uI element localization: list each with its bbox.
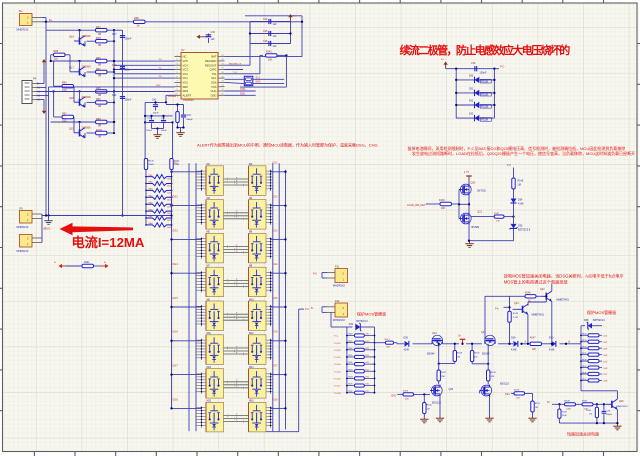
svg-text:6: 6 bbox=[176, 76, 177, 78]
svg-text:100nF: 100nF bbox=[480, 72, 487, 75]
wire right pin fan row4 bbox=[266, 271, 273, 292]
svg-text:0R: 0R bbox=[98, 64, 101, 67]
optocoupler M5 bbox=[206, 232, 224, 263]
svg-text:18: 18 bbox=[222, 63, 224, 65]
zener D35 (BZT52C5.6) bbox=[510, 224, 531, 241]
svg-text:4148: 4148 bbox=[404, 349, 410, 352]
svg-text:P-CG2: P-CG2 bbox=[334, 350, 341, 352]
resistor R147b (10K) bbox=[471, 213, 515, 223]
svg-text:10K: 10K bbox=[268, 58, 273, 61]
node CG7 label bbox=[272, 365, 278, 368]
svg-text:P-CG5: P-CG5 bbox=[334, 371, 341, 373]
node CG2 label bbox=[272, 196, 278, 199]
wire DG4 branch bbox=[170, 272, 201, 274]
svg-text:M13: M13 bbox=[207, 367, 212, 369]
svg-text:1.7V: 1.7V bbox=[464, 170, 470, 174]
svg-text:P-C: P-C bbox=[507, 164, 511, 167]
svg-text:9: 9 bbox=[176, 89, 177, 91]
svg-text:VSS: VSS bbox=[211, 85, 217, 89]
resistor R96 bbox=[87, 98, 116, 108]
wire CG5 branch bbox=[271, 306, 287, 308]
svg-text:DG7: DG7 bbox=[173, 365, 179, 368]
svg-text:47Ω: 47Ω bbox=[365, 377, 369, 379]
svg-text:51Ω: 51Ω bbox=[54, 57, 59, 60]
resistor R131 (1M) bbox=[528, 393, 540, 421]
svg-text:680pF: 680pF bbox=[606, 414, 612, 416]
svg-text:BSS84: BSS84 bbox=[427, 353, 435, 356]
svg-text:P-C: P-C bbox=[305, 308, 310, 311]
svg-text:REGOUT: REGOUT bbox=[205, 63, 217, 67]
wire opto rail A bbox=[188, 163, 190, 431]
svg-text:DSG: DSG bbox=[211, 93, 217, 97]
svg-text:VC1: VC1 bbox=[183, 76, 189, 80]
svg-text:VC4: VC4 bbox=[183, 63, 189, 67]
diode D31 (RS1M) bbox=[455, 88, 495, 96]
svg-text:Q28: Q28 bbox=[619, 401, 624, 403]
transistor Q18 (2N3906) bbox=[69, 91, 91, 107]
resistor R48 bbox=[87, 37, 116, 47]
svg-text:R135: R135 bbox=[582, 353, 587, 355]
svg-text:CG3': CG3' bbox=[603, 348, 608, 350]
svg-text:M16: M16 bbox=[249, 401, 254, 403]
svg-text:MHDR1X2: MHDR1X2 bbox=[333, 319, 346, 322]
wire freewheel buses bbox=[456, 69, 494, 118]
svg-text:CG8: CG8 bbox=[272, 398, 278, 401]
wire P12 to ladder bbox=[331, 312, 347, 327]
svg-text:M14: M14 bbox=[249, 367, 254, 369]
svg-text:8: 8 bbox=[176, 85, 177, 87]
svg-text:680pF: 680pF bbox=[187, 119, 194, 121]
svg-text:TS1: TS1 bbox=[212, 72, 217, 76]
svg-text:D33: D33 bbox=[349, 324, 354, 326]
svg-text:R117: R117 bbox=[385, 339, 391, 341]
svg-text:R138: R138 bbox=[582, 372, 587, 374]
red arrow annotation bbox=[60, 223, 134, 235]
capacitor C45 (100nF) bbox=[161, 116, 168, 132]
svg-text:100Ω: 100Ω bbox=[174, 164, 180, 166]
wire DG3 branch bbox=[170, 238, 201, 240]
svg-text:保护MOS管栅极: 保护MOS管栅极 bbox=[357, 311, 386, 317]
wire right pin fan row3 bbox=[266, 237, 273, 258]
svg-text:Q16: Q16 bbox=[69, 35, 74, 39]
svg-text:R99: R99 bbox=[96, 118, 101, 121]
node DG8 label bbox=[173, 398, 179, 401]
capacitor C43 (680pF) bbox=[181, 105, 193, 128]
svg-text:19: 19 bbox=[222, 59, 224, 61]
svg-text:R124: R124 bbox=[348, 377, 352, 379]
svg-text:Q26: Q26 bbox=[449, 388, 454, 391]
svg-text:CG6': CG6' bbox=[603, 368, 608, 370]
svg-text:D30: D30 bbox=[469, 75, 474, 77]
ground R142/C43 bbox=[176, 131, 184, 137]
optocoupler M15 bbox=[206, 401, 224, 432]
ground caps bbox=[153, 133, 161, 139]
ground Q28 bbox=[613, 424, 621, 430]
transistor Q17 (2N3906) bbox=[69, 61, 91, 77]
svg-text:续流二极管，防止电感效应大电压烧坏的: 续流二极管，防止电感效应大电压烧坏的 bbox=[400, 43, 571, 57]
svg-text:100Ω: 100Ω bbox=[149, 164, 155, 166]
wire left pin fan row2 bbox=[196, 204, 206, 225]
svg-text:M10: M10 bbox=[249, 299, 254, 301]
resistor R97 (51R) bbox=[52, 90, 74, 133]
svg-text:D34: D34 bbox=[518, 199, 523, 202]
svg-text:U7: U7 bbox=[181, 48, 185, 52]
resistor R66 bbox=[134, 16, 146, 27]
svg-text:SRP: SRP bbox=[183, 85, 189, 89]
svg-text:R100: R100 bbox=[96, 129, 103, 132]
svg-text:R133: R133 bbox=[582, 340, 587, 342]
resistors CG ladder R118-R126 bbox=[334, 327, 375, 395]
optocoupler M4 bbox=[249, 198, 267, 229]
wire right pin fan row7 bbox=[266, 373, 273, 394]
node DG7 label bbox=[173, 365, 179, 368]
power arrow above P4 (B+) bbox=[37, 59, 47, 84]
svg-text:20K: 20K bbox=[441, 376, 445, 378]
transistor Q28 (MMBT5551) bbox=[606, 399, 628, 423]
resistor R90 bbox=[96, 57, 108, 67]
wire stage rail Q18 bbox=[51, 90, 115, 92]
wire DG1 branch bbox=[170, 171, 201, 173]
wire TS1 pin bbox=[225, 55, 264, 73]
svg-text:P-CG8: P-CG8 bbox=[334, 393, 341, 395]
wire P4 pin A1 long (SRN) bbox=[37, 91, 175, 93]
ground Q26 bbox=[436, 416, 444, 422]
resistor R99 bbox=[96, 118, 108, 128]
resistor R147 (20K) bbox=[530, 338, 542, 351]
svg-text:D33: D33 bbox=[469, 114, 474, 116]
svg-text:MHDR1X2: MHDR1X2 bbox=[17, 250, 30, 253]
component J1 isolator on SCL/SDA bbox=[225, 76, 285, 85]
svg-text:R47: R47 bbox=[96, 26, 101, 29]
svg-text:RS1M: RS1M bbox=[481, 119, 488, 122]
wire Q28 bottom rail bbox=[559, 422, 618, 424]
wire cluster mid rail bbox=[145, 121, 174, 123]
transistor Q24 (BSS84) bbox=[427, 332, 445, 355]
svg-text:R139: R139 bbox=[582, 379, 587, 381]
svg-text:M15: M15 bbox=[207, 401, 212, 403]
svg-text:VC5: VC5 bbox=[183, 59, 189, 63]
capacitor C37 (100nF) bbox=[112, 33, 132, 41]
node DG6 label bbox=[173, 331, 179, 334]
svg-text:C25: C25 bbox=[263, 30, 268, 33]
svg-text:7: 7 bbox=[176, 81, 177, 83]
wire bundle to U7 bbox=[113, 59, 175, 87]
svg-text:100n: 100n bbox=[125, 69, 131, 72]
svg-text:D35: D35 bbox=[518, 225, 523, 228]
svg-text:47Ω: 47Ω bbox=[365, 341, 369, 343]
svg-text:R136: R136 bbox=[582, 359, 587, 361]
power arrow below P4 bbox=[37, 100, 47, 115]
svg-text:CG1: CG1 bbox=[272, 162, 278, 165]
svg-text:BZT52C5.6: BZT52C5.6 bbox=[518, 229, 531, 232]
svg-text:1M: 1M bbox=[427, 409, 430, 411]
ground Q27 bbox=[485, 416, 493, 422]
svg-text:NC: NC bbox=[183, 55, 187, 59]
svg-text:R97: R97 bbox=[62, 112, 67, 115]
svg-text:REGSRC: REGSRC bbox=[205, 59, 217, 63]
wire left pin fan row4 bbox=[196, 271, 206, 292]
optocoupler M7 bbox=[206, 266, 224, 297]
capacitor C40b (100nF) bbox=[146, 116, 154, 132]
svg-text:R118: R118 bbox=[348, 334, 352, 336]
svg-text:2N3906: 2N3906 bbox=[82, 95, 92, 99]
svg-text:MMBT5401: MMBT5401 bbox=[532, 314, 545, 317]
capacitor C48 (680pF) bbox=[602, 404, 613, 423]
svg-text:20K: 20K bbox=[491, 376, 495, 378]
transistor Q27 (BSS123) bbox=[480, 383, 510, 417]
svg-text:20: 20 bbox=[222, 55, 224, 57]
svg-text:R132: R132 bbox=[582, 334, 587, 336]
wire CG6 branch bbox=[271, 340, 287, 342]
svg-text:VC3: VC3 bbox=[183, 68, 189, 72]
transistor Q20 (2N7002) bbox=[459, 182, 486, 196]
ground Q20/Q21 bbox=[465, 242, 473, 248]
capacitor C41 (100nF) bbox=[112, 94, 132, 102]
svg-text:电流I=12MA: 电流I=12MA bbox=[72, 234, 145, 250]
resistor R136b (100K) bbox=[565, 401, 576, 411]
svg-text:R95: R95 bbox=[96, 87, 101, 90]
svg-text:BZT52C13: BZT52C13 bbox=[357, 321, 369, 323]
svg-text:R147: R147 bbox=[494, 213, 500, 215]
svg-text:R123: R123 bbox=[348, 369, 352, 371]
svg-text:15: 15 bbox=[222, 76, 224, 78]
transistor Q19 (2N3906) bbox=[69, 122, 91, 138]
svg-text:100nF: 100nF bbox=[125, 99, 133, 102]
svg-text:R148: R148 bbox=[525, 292, 531, 294]
wire opto links row2 bbox=[224, 211, 249, 220]
svg-text:11: 11 bbox=[222, 94, 224, 96]
resistor R138 (20K) bbox=[487, 344, 497, 385]
node CG8 label bbox=[272, 398, 278, 401]
wire left pin fan row8 bbox=[196, 406, 206, 427]
svg-text:MHDR1X2: MHDR1X2 bbox=[333, 285, 346, 288]
resistor R136 (20K) bbox=[407, 199, 459, 210]
svg-text:B+: B+ bbox=[19, 9, 23, 13]
svg-text:BSS123: BSS123 bbox=[500, 383, 509, 386]
svg-text:1uF: 1uF bbox=[211, 38, 216, 41]
resistors RA1-RA8 ladder bbox=[145, 174, 172, 229]
svg-text:0R: 0R bbox=[98, 33, 101, 36]
svg-text:1uF: 1uF bbox=[273, 35, 278, 38]
capacitor C36 (1uF) bbox=[197, 31, 216, 43]
resistor R101 with ports bbox=[54, 262, 109, 268]
node DG2 label bbox=[173, 196, 179, 199]
svg-text:DG2: DG2 bbox=[173, 196, 179, 199]
svg-text:*C-K: *C-K bbox=[233, 72, 238, 74]
wire opto links row3 bbox=[224, 245, 249, 254]
resistor R145 (1M) bbox=[507, 164, 524, 199]
svg-text:VC2: VC2 bbox=[183, 72, 189, 76]
wire CG4 branch bbox=[271, 272, 287, 274]
svg-text:R126: R126 bbox=[403, 391, 409, 393]
svg-text:C42: C42 bbox=[152, 99, 157, 101]
node Ds label bbox=[547, 402, 551, 404]
wire opto left feed bus bbox=[171, 169, 173, 408]
svg-text:P-CG4: P-CG4 bbox=[334, 364, 341, 366]
wire opto right rail C bbox=[272, 163, 274, 431]
svg-text:D39: D39 bbox=[511, 337, 516, 340]
svg-text:R137: R137 bbox=[582, 366, 587, 368]
resistor R148 (1K) bbox=[510, 292, 541, 302]
svg-text:R144: R144 bbox=[174, 161, 180, 163]
optocoupler M16 bbox=[249, 401, 267, 432]
svg-text:1: 1 bbox=[176, 55, 177, 57]
svg-text:0R: 0R bbox=[98, 105, 101, 108]
wire VBUS rail bbox=[42, 214, 173, 243]
svg-text:20K: 20K bbox=[386, 347, 390, 349]
wire opto links row1 bbox=[224, 177, 249, 186]
svg-text:R96: R96 bbox=[96, 98, 101, 101]
resistor R144 (100R) vertical bbox=[170, 159, 180, 177]
wire stage rail Q17 bbox=[51, 60, 115, 62]
svg-text:R126: R126 bbox=[348, 391, 352, 393]
svg-text:P-CG3: P-CG3 bbox=[334, 357, 341, 359]
svg-text:CG7': CG7' bbox=[603, 374, 608, 376]
svg-text:17: 17 bbox=[222, 68, 224, 70]
svg-text:BZT52C13: BZT52C13 bbox=[593, 319, 605, 322]
wire left pin fan row7 bbox=[196, 373, 206, 394]
wire cluster bus right bbox=[172, 122, 174, 158]
svg-text:P-CG7: P-CG7 bbox=[334, 386, 341, 388]
svg-text:14: 14 bbox=[222, 81, 224, 83]
svg-text:CAP1: CAP1 bbox=[209, 68, 217, 72]
svg-text:ALERT: ALERT bbox=[183, 93, 192, 97]
svg-text:MHDR1X2: MHDR1X2 bbox=[17, 226, 30, 229]
wire cap rail bbox=[114, 30, 124, 216]
wire opto links row5 bbox=[224, 313, 249, 322]
svg-text:51Ω: 51Ω bbox=[62, 120, 67, 123]
wire Q21 ground rail bbox=[468, 240, 514, 242]
svg-text:47Ω: 47Ω bbox=[365, 348, 369, 350]
svg-text:R94: R94 bbox=[62, 82, 67, 85]
resistor R100 bbox=[87, 129, 116, 139]
diode D34 (4148) bbox=[511, 199, 524, 224]
node CG1 label bbox=[272, 162, 278, 165]
svg-text:CG2: CG2 bbox=[272, 196, 278, 199]
ground VBUS- bbox=[43, 216, 53, 231]
svg-text:1M: 1M bbox=[457, 357, 460, 359]
svg-text:R149: R149 bbox=[513, 313, 519, 315]
svg-text:SDA: SDA bbox=[211, 81, 217, 85]
resistor R141 (10K) bbox=[240, 51, 288, 88]
svg-text:3: 3 bbox=[176, 63, 177, 65]
svg-text:Q24: Q24 bbox=[432, 332, 437, 335]
svg-text:CG6: CG6 bbox=[272, 331, 278, 334]
svg-text:C39: C39 bbox=[471, 62, 476, 65]
svg-text:0R: 0R bbox=[98, 75, 101, 78]
connector P12 (MHDR1X2) bbox=[311, 300, 348, 322]
svg-text:100K: 100K bbox=[566, 409, 572, 411]
svg-text:BAT: BAT bbox=[211, 55, 216, 59]
capacitors C24 C25 C26 bbox=[249, 18, 292, 48]
red note 保护MOS管用 bbox=[587, 309, 616, 315]
svg-text:B-: B- bbox=[54, 262, 56, 264]
resistor R119 (1M) bbox=[438, 343, 463, 365]
power arrow B+ freewheel bbox=[441, 59, 448, 69]
diode D33 (RS1M) bbox=[456, 114, 494, 122]
red note mid-right line1 bbox=[408, 145, 626, 151]
svg-text:M12: M12 bbox=[249, 333, 254, 335]
svg-text:R147: R147 bbox=[530, 338, 536, 340]
svg-text:20K: 20K bbox=[516, 398, 520, 400]
svg-text:2.2M: 2.2M bbox=[513, 317, 518, 319]
svg-text:100nF: 100nF bbox=[146, 130, 153, 132]
optocoupler M1 bbox=[206, 164, 224, 195]
svg-text:100K: 100K bbox=[562, 415, 567, 417]
wire Q20/Q21 stack bbox=[468, 181, 470, 241]
power arrow REG rail bbox=[288, 14, 296, 20]
node CG4 label bbox=[272, 263, 278, 266]
svg-text:SRN: SRN bbox=[183, 89, 189, 93]
svg-text:2N7002: 2N7002 bbox=[477, 189, 486, 192]
svg-text:P12: P12 bbox=[335, 300, 340, 303]
wire left pin fan row1 bbox=[196, 170, 206, 191]
svg-text:C41: C41 bbox=[112, 94, 117, 97]
wire cluster bus left bbox=[144, 102, 146, 158]
svg-text:C26: C26 bbox=[263, 40, 268, 43]
resistor R140b (1M) bbox=[586, 404, 598, 423]
svg-text:CHG: CHG bbox=[211, 89, 217, 93]
capacitor C40 (100n) bbox=[112, 64, 131, 72]
svg-text:B+: B+ bbox=[49, 18, 53, 22]
transistor Q22 (MMBT5401) bbox=[540, 284, 570, 345]
svg-text:P-C-: P-C- bbox=[500, 66, 505, 69]
svg-text:BSS84: BSS84 bbox=[472, 226, 480, 229]
svg-text:P-CG6: P-CG6 bbox=[334, 379, 341, 381]
diode D30b (4148) bbox=[404, 337, 410, 352]
wire right pin fan row5 bbox=[266, 305, 273, 326]
svg-text:C36: C36 bbox=[211, 31, 216, 34]
svg-text:短路加速关闭电路: 短路加速关闭电路 bbox=[567, 431, 599, 437]
optocoupler M13 bbox=[206, 367, 224, 398]
wire BAT pin bbox=[225, 57, 303, 66]
connector P10 (MHDR1X2) bbox=[17, 235, 43, 253]
svg-text:发生放电过流短路断时，LOAD在拉低后，Q20Q21栅极产生: 发生放电过流短路断时，LOAD在拉低后，Q20Q21栅极产生一个电压，使信号变高… bbox=[412, 150, 635, 156]
node DG4 label bbox=[173, 263, 179, 266]
node CG3 label bbox=[272, 229, 278, 232]
diode D40 (4148) bbox=[549, 337, 571, 352]
svg-text:DSG: DSG bbox=[505, 394, 510, 396]
svg-text:CG3: CG3 bbox=[272, 229, 278, 232]
wire right pin fan row6 bbox=[266, 339, 273, 360]
svg-text:ALERT作为报警输出到MCU的中断，通知MCU读数据，作为: ALERT作为报警输出到MCU的中断，通知MCU读数据，作为输入时管脚为保护，温… bbox=[197, 141, 378, 147]
wire stage rail Q16 bbox=[46, 29, 115, 31]
svg-text:R145: R145 bbox=[518, 180, 524, 183]
svg-text:R88: R88 bbox=[54, 50, 59, 53]
wire right pin fan row1 bbox=[266, 170, 273, 191]
wire vertical B+ left bus bbox=[45, 22, 47, 216]
node DG3 label bbox=[173, 229, 179, 232]
svg-text:D31: D31 bbox=[469, 88, 474, 90]
svg-text:12: 12 bbox=[222, 89, 224, 91]
optocoupler M12 bbox=[249, 333, 267, 364]
svg-text:5: 5 bbox=[176, 72, 177, 74]
wire R142/C43 bottom bbox=[176, 126, 184, 130]
svg-text:Q20: Q20 bbox=[471, 182, 476, 185]
resistor R130 (1M) bbox=[420, 394, 432, 422]
svg-text:bq76920: bq76920 bbox=[184, 98, 195, 102]
diode D30 (RS1M) bbox=[455, 75, 495, 83]
svg-text:R119: R119 bbox=[457, 353, 463, 355]
svg-text:P-C-: P-C- bbox=[334, 336, 339, 338]
transistor Q21 (BSS84) bbox=[459, 211, 483, 229]
svg-text:R91: R91 bbox=[96, 68, 101, 71]
svg-text:10K: 10K bbox=[496, 220, 500, 222]
svg-text:16: 16 bbox=[222, 72, 224, 74]
svg-text:保护MOS管栅极: 保护MOS管栅极 bbox=[587, 309, 616, 315]
svg-text:DG6: DG6 bbox=[173, 331, 179, 334]
svg-text:C37: C37 bbox=[112, 33, 117, 36]
